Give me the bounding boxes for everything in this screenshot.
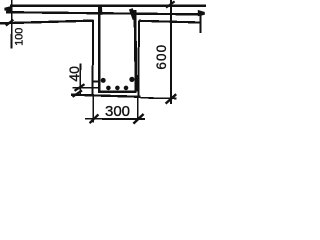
slab bottom right: [139, 21, 201, 23]
rebar dot upper-right: [129, 77, 134, 82]
slab bottom left: [0, 21, 94, 24]
dim line 300: [85, 118, 145, 120]
slab top line: [10, 5, 206, 7]
stirrup right hook: [131, 9, 135, 19]
tick 600 bottom: [166, 94, 177, 103]
dim line 100 vertical: [11, 0, 13, 49]
web bottom: [71, 95, 140, 97]
ext line 300 right: [137, 97, 139, 120]
tie nub at upper-left bar: [93, 80, 98, 82]
flange width line with arrows: [6, 12, 202, 14]
stirrup left leg: [98, 7, 101, 92]
svg-text:300: 300: [105, 103, 130, 120]
ext line stirrup bottom left: [72, 87, 99, 89]
web right face: [138, 21, 140, 97]
rebar dot bottom 1: [106, 86, 111, 91]
right edge extension line: [200, 13, 202, 33]
tick 40 lower: [73, 90, 83, 96]
tick 600 top: [166, 1, 175, 7]
dim line 600 vertical: [170, 0, 172, 104]
ext line 300 left: [92, 97, 94, 123]
rebar dot bottom 2: [115, 86, 120, 91]
tick 40 upper: [75, 84, 85, 91]
tick 100 at slab bottom: [6, 20, 14, 26]
web left face: [92, 20, 94, 96]
stirrup left hook: [98, 7, 102, 15]
tick 300 right: [133, 114, 143, 124]
stirrup right leg: [135, 10, 136, 92]
svg-text:600: 600: [154, 44, 169, 70]
rebar dot bottom 3: [124, 86, 129, 91]
rebar dot upper-left: [101, 78, 106, 83]
ext line web bottom right: [140, 97, 176, 100]
dim line 40 vertical: [79, 64, 81, 96]
tick 300 left: [90, 114, 99, 123]
svg-text:40: 40: [66, 66, 82, 82]
right arrowhead: [198, 10, 205, 16]
svg-text:100: 100: [14, 28, 26, 46]
stirrup bottom: [98, 90, 136, 92]
left arrowhead: [4, 6, 11, 12]
